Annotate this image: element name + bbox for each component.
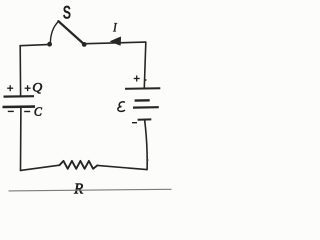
baseline rule under figure bbox=[9, 189, 172, 191]
label I (current) bbox=[113, 23, 117, 31]
wire top-left horizontal segment bbox=[20, 45, 47, 46]
wire bottom-left segment bbox=[21, 165, 60, 170]
wire bottom-right segment bbox=[97, 165, 146, 169]
ink blob on right wire (scan artifact near battery plus) bbox=[145, 79, 147, 81]
battery long plus plate (top) bbox=[125, 87, 160, 90]
wire left vertical lower segment bbox=[20, 108, 22, 171]
label EMF script-E bbox=[118, 102, 125, 112]
battery plus sign label bbox=[134, 76, 140, 82]
ink blob on lower right wire (scan artifact) bbox=[146, 159, 148, 161]
battery short plate (cell 1 minus) bbox=[135, 99, 150, 102]
capacitor C bottom plate bbox=[3, 105, 36, 108]
wire left vertical upper segment bbox=[19, 46, 21, 96]
current arrow I (arrowhead pointing left on top wire) bbox=[110, 37, 121, 46]
minus sign right of wire (bottom plate charge) bbox=[24, 111, 30, 113]
switch S blade bbox=[58, 21, 83, 43]
label C (capacitance) bbox=[35, 107, 42, 115]
label Q (charge) bbox=[33, 83, 42, 93]
switch S right contact dot bbox=[82, 42, 87, 47]
label S (switch) bbox=[64, 6, 71, 19]
resistor R bbox=[59, 161, 97, 169]
battery minus sign label bbox=[132, 122, 137, 124]
battery short plate (bottom minus terminal) bbox=[138, 118, 152, 120]
wire right lower segment (battery minus to bottom corner) bbox=[145, 121, 147, 170]
switch S blade hinge tick (curved) bbox=[50, 22, 58, 43]
battery long plate (cell 2 plus) bbox=[133, 106, 159, 109]
capacitor C top plate bbox=[4, 95, 35, 98]
wire top-right segment (switch to corner, carries current arrow) bbox=[86, 42, 146, 44]
switch S left contact dot bbox=[47, 42, 52, 47]
wire right upper segment (top corner down to battery plus plate) bbox=[144, 42, 146, 87]
plus sign left of wire (top plate charge) bbox=[7, 85, 13, 91]
minus sign left of wire (bottom plate charge) bbox=[8, 110, 14, 112]
plus sign right of wire (top plate charge) bbox=[25, 85, 31, 91]
label R (resistance) bbox=[74, 184, 83, 194]
